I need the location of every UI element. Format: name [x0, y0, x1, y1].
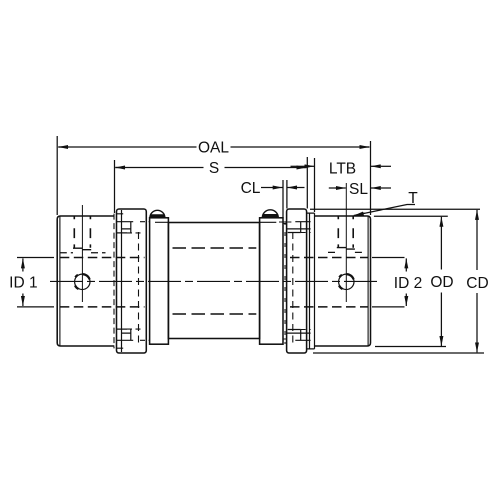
dimension OD extension lines [374, 216, 448, 346]
dimension ID1 arrows [22, 258, 24, 271]
dimension OAL extension lines [17, 136, 484, 353]
dimension SL arrows [329, 187, 336, 189]
dimension CD arrows [476, 219, 478, 344]
hub 2 chamfer line [367, 216, 369, 345]
svg-text:LTB: LTB [329, 161, 356, 178]
svg-text:T: T [408, 190, 418, 207]
collar 2 (right sleeve collar) [260, 218, 283, 344]
svg-text:OD: OD [430, 274, 453, 291]
axis centerline [50, 280, 378, 282]
flange 1 bolt top [117, 222, 134, 233]
collar 1 (left sleeve collar) [150, 218, 169, 344]
flange 1 (left cover flange) [117, 209, 147, 353]
dimension CL arrows [261, 187, 273, 189]
hub 1 keyway centerline [81, 205, 83, 302]
dimension ID2 arrows [405, 258, 407, 271]
flange 2 (right cover flange) [287, 209, 307, 353]
hub 1 bore hidden lines [60, 258, 145, 307]
hub 2 set screw hole [339, 274, 354, 289]
svg-text:OAL: OAL [198, 140, 229, 157]
flange 1 seam line [121, 210, 123, 352]
hub 2 left face [314, 213, 316, 349]
svg-text:ID 2: ID 2 [394, 275, 422, 292]
flange 2 bolt bottom [287, 330, 311, 341]
dimension OD arrows [440, 226, 442, 337]
hub 1 key seat hidden lines [73, 248, 91, 250]
gap hidden line between collar 2 and flange 2 [284, 221, 286, 344]
sleeve groove hidden lines [173, 248, 257, 314]
collar 2 inner edge [260, 221, 276, 223]
svg-text:SL: SL [349, 181, 368, 198]
dimension LTB extension line [314, 158, 316, 212]
svg-text:CD: CD [466, 275, 488, 292]
dimension CL extension lines [282, 180, 284, 218]
svg-text:CL: CL [241, 180, 261, 197]
flange 1 bolt circle hidden line [138, 232, 140, 343]
flange 2 shoulder edges [307, 213, 315, 349]
flange 1 shoulder edges [117, 214, 124, 348]
flange 2 seam line [309, 213, 311, 349]
flange 2 bolt top [287, 222, 311, 233]
hub 2 bore hidden lines [290, 258, 368, 307]
hub 2 keyway hidden lines [338, 217, 353, 249]
hub 2 key seat hidden lines [337, 248, 355, 250]
hub 1 chamfer line [59, 216, 61, 345]
hub 1 set screw hole [75, 274, 90, 289]
dimension OAL line [59, 146, 370, 148]
svg-text:ID 1: ID 1 [9, 275, 37, 292]
dimension ID2 extension lines [372, 258, 405, 307]
hub 1 right face (hidden) [113, 214, 115, 349]
grease fitting dome 1 [150, 210, 165, 217]
grease fitting dome 2 [262, 210, 278, 218]
label T leader line [355, 205, 415, 216]
hub 2 keyway centerline [345, 183, 347, 302]
dimension LTB arrows [291, 165, 306, 167]
hub 1 (left hub) outline [57, 216, 114, 346]
hub 2 (right hub) outline [315, 216, 371, 346]
svg-text:S: S [209, 160, 219, 177]
dimension ID1 extension lines [17, 258, 54, 307]
dimension S line [116, 167, 307, 169]
dimension CD extension lines [310, 209, 484, 353]
flange 2 bolt circle hidden line [292, 232, 294, 343]
flange 1 bolt bottom [117, 329, 134, 340]
hub 1 keyway hidden lines [74, 217, 90, 249]
center sleeve [168, 223, 259, 339]
dimension S extension lines [114, 160, 116, 213]
collar 1 inner edge [155, 221, 168, 223]
